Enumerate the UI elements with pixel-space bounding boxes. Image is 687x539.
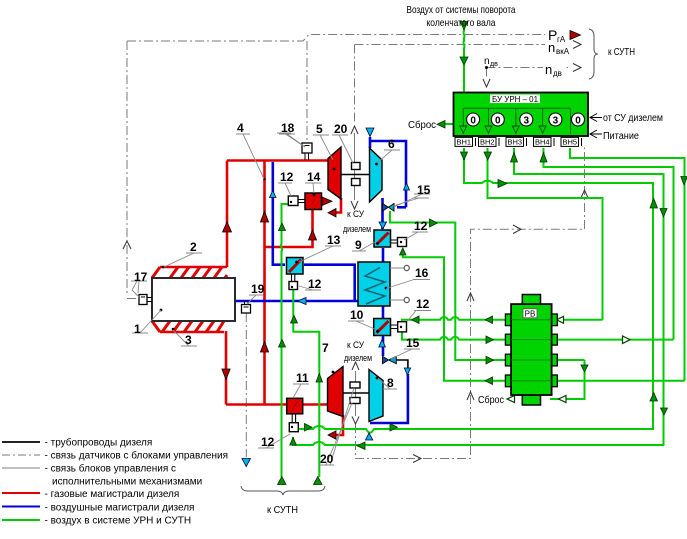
svg-text:Питание: Питание bbox=[603, 131, 639, 142]
svg-text:- связь блоков управления с: - связь блоков управления с bbox=[45, 463, 177, 475]
svg-text:n: n bbox=[548, 40, 555, 55]
svg-text:12: 12 bbox=[416, 297, 430, 311]
svg-text:коленчатого вала: коленчатого вала bbox=[427, 17, 496, 29]
svg-text:11: 11 bbox=[296, 371, 309, 385]
svg-text:- трубопроводы дизеля: - трубопроводы дизеля bbox=[45, 437, 153, 449]
svg-text:0: 0 bbox=[495, 116, 501, 127]
svg-text:12: 12 bbox=[261, 435, 275, 449]
svg-text:12: 12 bbox=[308, 277, 322, 291]
svg-text:- связь датчиков с блоками упр: - связь датчиков с блоками управления bbox=[45, 450, 229, 462]
svg-text:к СУ: к СУ bbox=[347, 340, 365, 351]
svg-text:1: 1 bbox=[134, 322, 141, 336]
svg-text:Воздух от системы поворота: Воздух от системы поворота bbox=[407, 4, 516, 16]
svg-text:3: 3 bbox=[185, 333, 192, 347]
svg-text:вкА: вкА bbox=[556, 47, 570, 56]
svg-text:4: 4 bbox=[237, 121, 244, 135]
svg-text:2: 2 bbox=[190, 240, 197, 254]
svg-text:ВН1: ВН1 bbox=[457, 138, 472, 147]
svg-text:n: n bbox=[545, 62, 552, 77]
svg-text:14: 14 bbox=[307, 170, 321, 184]
svg-text:ВН2: ВН2 bbox=[480, 138, 495, 147]
svg-text:- воздушные магистрали дизеля: - воздушные магистрали дизеля bbox=[45, 503, 195, 514]
svg-text:0: 0 bbox=[470, 116, 476, 127]
svg-text:9: 9 bbox=[355, 238, 362, 252]
svg-text:15: 15 bbox=[417, 183, 431, 197]
svg-text:3: 3 bbox=[553, 116, 559, 127]
svg-text:7: 7 bbox=[322, 341, 329, 355]
svg-text:ВН4: ВН4 bbox=[535, 138, 550, 147]
svg-text:от СУ дизелем: от СУ дизелем bbox=[603, 113, 663, 124]
svg-text:17: 17 bbox=[134, 270, 148, 284]
svg-text:12: 12 bbox=[414, 219, 428, 233]
svg-text:- газовые магистрали дизеля: - газовые магистрали дизеля bbox=[45, 489, 180, 500]
svg-text:Сброс: Сброс bbox=[408, 119, 436, 131]
svg-text:- воздух в системе УРН и СУТН: - воздух в системе УРН и СУТН bbox=[45, 516, 192, 527]
svg-text:дв: дв bbox=[553, 69, 562, 78]
svg-text:к СУТН: к СУТН bbox=[608, 47, 635, 58]
svg-text:3: 3 bbox=[524, 116, 530, 127]
svg-text:гА: гА bbox=[557, 35, 566, 44]
svg-text:18: 18 bbox=[281, 121, 295, 135]
svg-text:13: 13 bbox=[327, 233, 341, 247]
svg-text:дизелем: дизелем bbox=[343, 224, 371, 235]
svg-text:19: 19 bbox=[251, 282, 265, 296]
svg-text:15: 15 bbox=[406, 336, 420, 350]
svg-text:дв: дв bbox=[490, 61, 498, 68]
svg-text:к СУ: к СУ bbox=[347, 209, 365, 220]
svg-text:дизелем: дизелем bbox=[344, 353, 372, 364]
svg-text:n: n bbox=[484, 56, 490, 67]
svg-text:20: 20 bbox=[334, 122, 348, 136]
svg-text:5: 5 bbox=[316, 122, 323, 136]
svg-text:Сброс: Сброс bbox=[478, 394, 504, 406]
svg-text:6: 6 bbox=[388, 137, 395, 151]
svg-text:РВ: РВ bbox=[525, 309, 536, 318]
svg-text:исполнительными механизмами: исполнительными механизмами bbox=[52, 477, 202, 488]
svg-text:ВН5: ВН5 bbox=[563, 138, 578, 147]
svg-text:к СУТН: к СУТН bbox=[267, 505, 298, 516]
svg-text:10: 10 bbox=[350, 308, 364, 322]
svg-text:20: 20 bbox=[320, 452, 334, 466]
svg-text:БУ УРН – 01: БУ УРН – 01 bbox=[492, 94, 538, 104]
svg-text:16: 16 bbox=[415, 266, 429, 280]
svg-text:8: 8 bbox=[387, 376, 394, 390]
svg-text:ВН3: ВН3 bbox=[508, 138, 523, 147]
svg-text:12: 12 bbox=[280, 170, 294, 184]
svg-text:0: 0 bbox=[575, 116, 581, 127]
